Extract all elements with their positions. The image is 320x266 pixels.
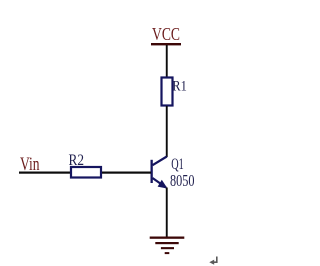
wire R1 to Q1 collector xyxy=(166,106,168,157)
svg-text:VCC: VCC xyxy=(152,24,180,44)
transistor Q1 emitter arrow xyxy=(158,180,168,189)
paragraph return mark xyxy=(209,257,217,265)
power bar symbol VCC xyxy=(151,43,181,45)
resistor R2 xyxy=(71,167,101,178)
ground bar 1 xyxy=(150,237,185,239)
transistor Q1 base bar xyxy=(151,160,153,183)
svg-text:R2: R2 xyxy=(69,152,85,169)
ground bar 3 xyxy=(161,247,174,249)
svg-text:R1: R1 xyxy=(172,79,187,95)
transistor Q1 emitter diagonal xyxy=(153,178,167,188)
wire Q1 emitter to ground xyxy=(166,188,168,238)
transistor Q1 collector diagonal xyxy=(153,157,167,166)
wire Vin to R2 xyxy=(19,172,72,174)
svg-text:8050: 8050 xyxy=(170,171,195,190)
wire VCC to R1 xyxy=(166,45,168,77)
ground bar 2 xyxy=(155,242,178,244)
wire R2 to Q1 base xyxy=(102,172,151,174)
ground bar 4 xyxy=(165,252,170,254)
resistor R1 xyxy=(162,78,173,106)
